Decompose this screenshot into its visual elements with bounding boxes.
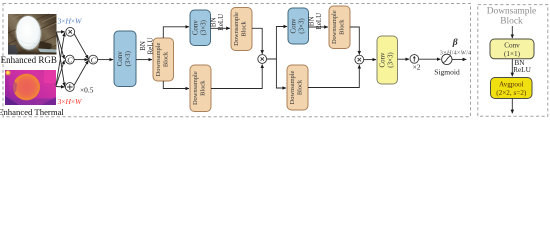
wire: ds1 up to convA bbox=[163, 27, 189, 38]
concat node C2 bbox=[89, 55, 98, 64]
wire: dsA-bot to multiply xA bbox=[211, 65, 262, 89]
svg-text:(3×3): (3×3) bbox=[200, 20, 207, 35]
downsample block ds1 bbox=[153, 38, 174, 81]
wire: convC to upsample node bbox=[398, 58, 410, 60]
label: Enhanced RGB bbox=[1, 55, 57, 65]
enhanced thermal input image bbox=[5, 70, 56, 105]
svg-text:Downsample: Downsample bbox=[155, 42, 162, 76]
wire: convB to dsB-top bbox=[309, 26, 328, 28]
conv block convB (3x3) top branch bbox=[288, 8, 309, 44]
wire: sigmoid output arrow bbox=[452, 58, 466, 60]
legend title: Downsample Block bbox=[487, 7, 536, 27]
downsample block dsB-bot bbox=[287, 65, 308, 110]
svg-text:Block: Block bbox=[241, 21, 248, 37]
wire: add node to concat C2 bbox=[74, 60, 88, 85]
svg-text:β: β bbox=[452, 37, 458, 48]
svg-text:(3×3): (3×3) bbox=[125, 51, 132, 66]
svg-text:Downsample: Downsample bbox=[487, 7, 536, 17]
legend block: Avgpool (2x2, s=2) bbox=[491, 78, 533, 99]
multiply node (RGB x Thermal) bbox=[66, 27, 75, 36]
svg-text:Sigmoid: Sigmoid bbox=[434, 68, 460, 77]
wire: concat C2 to conv1 bbox=[98, 59, 113, 61]
svg-text:Block: Block bbox=[297, 79, 304, 95]
wire: multiply node to concat C2 bbox=[74, 34, 88, 59]
svg-text:ReLU: ReLU bbox=[513, 65, 532, 74]
svg-text:C: C bbox=[91, 55, 97, 64]
svg-text:Block: Block bbox=[339, 19, 346, 35]
wire: concat C1 to concat C2 bbox=[74, 59, 88, 61]
svg-text:3×H×W: 3×H×W bbox=[58, 97, 83, 106]
svg-text:BN: BN bbox=[211, 17, 218, 27]
upsample node (up arrow) bbox=[410, 55, 419, 64]
svg-text:Conv: Conv bbox=[290, 18, 297, 33]
svg-text:Downsample: Downsample bbox=[331, 10, 338, 44]
wire: upsample to sigmoid bbox=[419, 58, 441, 60]
multiply node xA bbox=[258, 55, 267, 64]
svg-text:3×H×W: 3×H×W bbox=[58, 16, 83, 25]
wire: RGB to concat node C1 bbox=[57, 33, 65, 60]
svg-text:(1×1): (1×1) bbox=[504, 50, 521, 58]
multiply node xB bbox=[355, 55, 364, 64]
label: Enhanced Thermal bbox=[0, 107, 64, 117]
svg-text:Conv: Conv bbox=[192, 20, 199, 35]
svg-text:Enhanced Thermal: Enhanced Thermal bbox=[0, 107, 64, 117]
label: BN ReLU after convB bbox=[309, 13, 323, 30]
wire: legend title to conv 1x1 bbox=[511, 26, 513, 38]
wire: thermal to concat node C1 bbox=[56, 60, 64, 86]
wire: RGB to add node bbox=[57, 33, 65, 86]
wire: thermal to multiply node bbox=[56, 33, 65, 86]
wire: ds1 down to downsample dsA-bot bbox=[163, 81, 189, 89]
svg-text:Block: Block bbox=[200, 80, 207, 96]
label: beta bbox=[452, 37, 458, 48]
downsample block dsA-bot bbox=[190, 65, 211, 112]
svg-text:Conv: Conv bbox=[504, 41, 520, 49]
svg-text:(2×2, s=2): (2×2, s=2) bbox=[496, 89, 527, 97]
label: 3xHxW (red, bottom) bbox=[58, 97, 83, 106]
conv block convC (3x3, yellow) bbox=[377, 36, 398, 84]
wire: dsA-top to multiply xA bbox=[252, 28, 262, 54]
label: x0.5 bbox=[80, 85, 94, 94]
wire: xB to conv block convC bbox=[364, 59, 376, 61]
concat node C1 bbox=[65, 55, 74, 64]
label: BN ReLU after convA bbox=[211, 14, 225, 31]
wire: junction down to dsB-bot bbox=[276, 59, 286, 88]
svg-text:Block: Block bbox=[163, 51, 170, 67]
legend dashed frame bbox=[478, 5, 548, 117]
svg-text:Block: Block bbox=[500, 17, 523, 27]
svg-text:Conv: Conv bbox=[117, 51, 124, 66]
svg-text:C: C bbox=[67, 55, 73, 64]
wire: conv1 to downsample ds1 bbox=[136, 59, 152, 61]
main dashed frame bbox=[3, 4, 471, 117]
downsample block dsA-top bbox=[231, 8, 252, 51]
wire: conv 1x1 to avgpool bbox=[511, 59, 513, 77]
wire: avgpool output arrow bbox=[511, 99, 513, 114]
label: x2 under upsample bbox=[413, 63, 421, 72]
wire: thermal to add node bbox=[56, 86, 65, 89]
svg-text:Avgpool: Avgpool bbox=[499, 80, 524, 88]
svg-text:3×H/4×W/4: 3×H/4×W/4 bbox=[440, 50, 472, 57]
enhanced RGB input image bbox=[8, 14, 57, 55]
wire: dsB-top to multiply xB bbox=[350, 27, 359, 55]
wire: RGB to multiply node bbox=[57, 31, 65, 33]
legend block: Conv (1x1) bbox=[490, 39, 534, 59]
svg-text:(3×3): (3×3) bbox=[298, 18, 305, 33]
wire: xA to junction and up to convB bbox=[267, 27, 287, 60]
svg-text:×0.5: ×0.5 bbox=[80, 85, 94, 94]
svg-text:Conv: Conv bbox=[379, 52, 386, 67]
svg-text:Downsample: Downsample bbox=[289, 70, 296, 104]
conv block convA (3x3) top branch bbox=[190, 10, 211, 46]
label: Sigmoid bbox=[434, 68, 460, 77]
label: BN ReLU after conv1 bbox=[140, 38, 154, 55]
wire: dsB-bot to multiply xB bbox=[308, 65, 359, 88]
svg-text:×2: ×2 bbox=[413, 63, 421, 72]
svg-text:(3×3): (3×3) bbox=[387, 52, 394, 67]
conv block conv1 (3x3) bbox=[114, 31, 136, 87]
label: BN ReLU in legend bbox=[513, 58, 532, 74]
svg-text:BN: BN bbox=[309, 16, 316, 26]
label: 3xHxW (blue, top) bbox=[58, 16, 83, 25]
sigmoid node bbox=[442, 54, 452, 64]
svg-text:Downsample: Downsample bbox=[233, 12, 240, 46]
svg-text:Enhanced RGB: Enhanced RGB bbox=[1, 55, 57, 65]
downsample block dsB-top bbox=[329, 6, 350, 49]
svg-text:BN: BN bbox=[140, 41, 147, 51]
label: 3xH/4xW/4 bbox=[440, 50, 472, 57]
add node bbox=[65, 83, 74, 92]
svg-text:Downsample: Downsample bbox=[192, 71, 199, 105]
wire: convA to dsA-top bbox=[211, 27, 230, 29]
